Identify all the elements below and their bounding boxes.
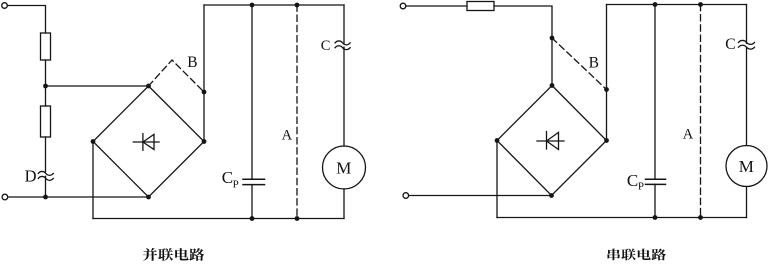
diode symbol inside VC2 [537, 132, 564, 150]
dashed jumper B (right circuit) [552, 38, 607, 90]
wire bridge left vertex down (right) [496, 141, 498, 218]
wire break D to bottom node N2 [45, 176, 47, 197]
bridge top vertex node (right) [550, 83, 555, 88]
dashed jumper B (left circuit) [149, 60, 205, 92]
resistor R1 [41, 33, 51, 60]
node: dashed B meets right-vertex wire [202, 90, 207, 95]
wire motor to bottom rail (right) [746, 187, 748, 218]
node Cp-branch bottom (right) [653, 215, 658, 220]
node A-line top [295, 3, 300, 8]
bridge top vertex node [146, 84, 151, 89]
terminal J4 (bottom-left input, right circuit) [403, 193, 409, 199]
terminal J1 (top-left input) [2, 3, 8, 9]
motor M (right) [726, 146, 767, 187]
node Cp-branch top (right) [653, 2, 658, 7]
wire motor branch upper (right, to break C) [746, 5, 748, 44]
bridge right vertex node (right) [604, 138, 609, 143]
top rail (right circuit) [607, 4, 747, 6]
wire motor branch upper (to break C) [343, 5, 345, 43]
wire Cp branch lower (right) [654, 184, 656, 217]
bridge rectifier VC1 (diamond) [93, 86, 204, 197]
node A-line bottom [295, 216, 300, 221]
wire Cp branch upper (right) [654, 5, 656, 180]
svg-text:A: A [683, 127, 694, 143]
svg-text:C: C [725, 36, 735, 53]
wire break C to motor (right) [746, 47, 748, 145]
wire N1 to resistor R2 [45, 86, 47, 106]
svg-text:P: P [233, 178, 239, 190]
label Cp (right) [627, 171, 644, 192]
node Cp-branch top [250, 3, 255, 8]
svg-text:C: C [627, 171, 638, 190]
caption "并联电路" [143, 248, 205, 261]
wire node N1 to bridge top vertex [46, 85, 149, 87]
wire J3 to resistor R3 [406, 5, 467, 7]
label Cp (left) [222, 168, 239, 190]
capacitor Cp (left) plates [243, 179, 265, 184]
wire J2 to bridge bottom vertex [8, 196, 149, 198]
svg-text:M: M [739, 157, 754, 176]
terminal J2 (bottom-left input) [2, 194, 8, 200]
bridge left vertex node [91, 139, 96, 144]
wire top rail corner to bridge right vertex [606, 5, 608, 141]
dashed measurement line A (right) [700, 5, 702, 218]
capacitor Cp (right) plates [646, 179, 666, 184]
bottom rail (left circuit) [93, 218, 344, 220]
node A-line top (right) [698, 2, 703, 7]
wire J4 to bridge bottom vertex [409, 195, 552, 197]
resistor R2 [41, 106, 51, 137]
wire Cp branch upper [251, 5, 253, 179]
dashed measurement line A (left) [296, 5, 298, 219]
AC-break symbol C (double tilde, right) [739, 40, 755, 49]
wire R3 to bridge top [494, 6, 552, 86]
AC-break symbol D (double tilde) [38, 171, 53, 180]
bridge right vertex node [202, 139, 207, 144]
caption "串联电路" [607, 249, 666, 261]
bridge left vertex node (right) [495, 138, 500, 143]
node A-line bottom (right) [698, 215, 703, 220]
bridge bottom vertex node [146, 195, 151, 200]
wire break C to motor [343, 47, 345, 146]
bridge bottom vertex node (right) [549, 193, 554, 198]
wire Cp branch lower [251, 185, 253, 219]
wire motor to bottom rail [343, 189, 345, 219]
svg-text:B: B [589, 55, 599, 72]
terminal J3 (top-left input, right circuit) [400, 3, 406, 9]
diode symbol inside VC1 [133, 134, 159, 151]
svg-text:B: B [187, 54, 197, 71]
resistor R3 (horizontal) [467, 2, 494, 11]
AC-break symbol C (double tilde, left) [335, 41, 350, 50]
wire R2 to break D [45, 137, 47, 172]
wire R1 to node N1 [45, 60, 47, 86]
wire bridge right vertex to top rail [203, 5, 205, 142]
svg-text:C: C [321, 38, 331, 54]
svg-text:D: D [25, 167, 37, 186]
svg-text:A: A [282, 128, 293, 144]
bridge rectifier VC2 (diamond) [497, 86, 607, 196]
svg-text:C: C [222, 168, 233, 187]
top rail (left circuit) [204, 4, 344, 6]
bottom rail (right circuit) [497, 217, 747, 219]
node Cp-branch bottom [250, 216, 255, 221]
node: dashed B end (right) [604, 87, 609, 92]
svg-text:M: M [336, 158, 351, 177]
wire J1 to resistor R1 [7, 6, 45, 34]
motor M (left) [323, 146, 366, 189]
node N2 (divider meets bottom wire) [43, 195, 48, 200]
node N1 (junction to bridge top) [43, 84, 48, 89]
node: dashed B start (right) [550, 36, 555, 41]
svg-text:P: P [638, 180, 644, 192]
wire bridge left vertex down [92, 142, 94, 219]
